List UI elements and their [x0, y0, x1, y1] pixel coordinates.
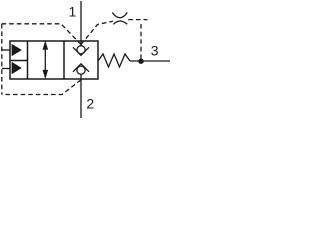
- svg-text:2: 2: [86, 96, 94, 112]
- svg-text:3: 3: [151, 43, 159, 59]
- svg-text:1: 1: [69, 4, 77, 20]
